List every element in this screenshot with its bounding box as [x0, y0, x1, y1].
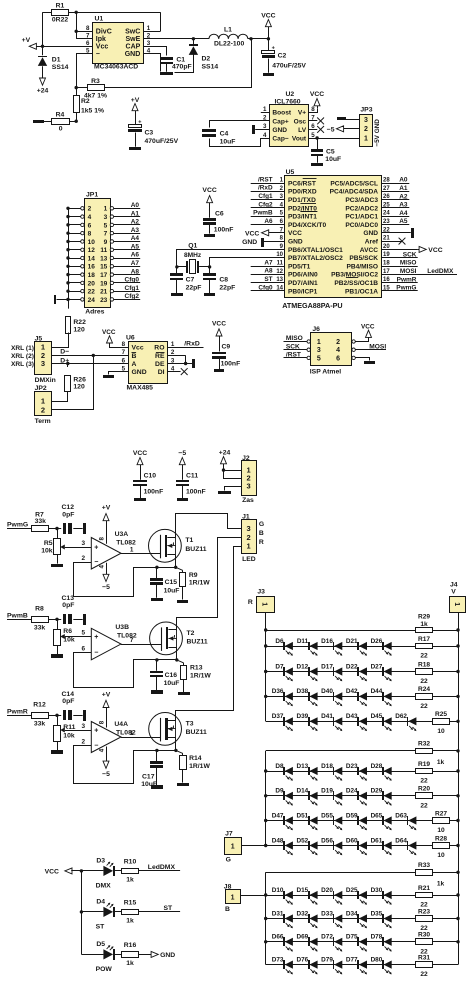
- resistor R31 22: [416, 954, 433, 978]
- J6 pin5 net /RST: [284, 352, 307, 359]
- svg-text:0pF: 0pF: [62, 698, 74, 705]
- svg-text:SCK: SCK: [286, 343, 300, 350]
- svg-text:R32: R32: [418, 741, 430, 748]
- svg-text:D12: D12: [296, 663, 308, 670]
- svg-text:A: A: [132, 361, 137, 368]
- svg-text:17: 17: [100, 272, 108, 279]
- JP1 pin 12 stub to bus: [68, 248, 84, 251]
- LED D11: [297, 638, 318, 656]
- svg-text:D34: D34: [346, 910, 358, 917]
- svg-text:A7: A7: [264, 259, 273, 266]
- JP1 pin 4 stub to bus: [68, 215, 84, 218]
- svg-text:1k: 1k: [437, 759, 445, 766]
- svg-text:−: −: [94, 743, 98, 750]
- U5 pin22 ground: [381, 228, 414, 238]
- LED D17: [321, 663, 342, 681]
- svg-text:J7: J7: [225, 831, 233, 838]
- U5 pin 3 net Cfg1: [251, 193, 285, 200]
- svg-text:11: 11: [277, 261, 284, 267]
- connector J4 V: [450, 582, 466, 613]
- LED D62: [395, 713, 416, 731]
- U5 pin 2 net /RxD: [251, 185, 285, 192]
- svg-text:Osc: Osc: [294, 118, 307, 125]
- svg-text:R19: R19: [418, 761, 430, 768]
- svg-text:0pF: 0pF: [62, 602, 74, 609]
- svg-text:J5: J5: [35, 336, 43, 343]
- JP1 pin 5 net A2: [110, 219, 140, 227]
- svg-text:D24: D24: [346, 788, 358, 795]
- svg-text:8: 8: [88, 231, 92, 238]
- svg-text:+: +: [94, 634, 98, 641]
- svg-text:D63: D63: [395, 812, 407, 819]
- svg-text:MOSI: MOSI: [400, 268, 417, 275]
- svg-text:GND: GND: [132, 369, 147, 376]
- U5 pin 12 net A8: [251, 268, 285, 275]
- svg-text:VCC: VCC: [245, 230, 259, 237]
- wire +V rail to U1 pin6: [35, 46, 92, 48]
- svg-text:4: 4: [88, 214, 92, 221]
- svg-text:ST: ST: [264, 276, 272, 283]
- LED D48: [272, 837, 293, 855]
- LED D32: [296, 910, 317, 928]
- svg-text:22: 22: [420, 678, 428, 685]
- svg-text:Q1: Q1: [188, 242, 197, 249]
- wire LED row at y=771: [266, 771, 458, 773]
- svg-text:12: 12: [88, 247, 96, 254]
- svg-text:Vcc: Vcc: [96, 44, 109, 51]
- svg-text:R28: R28: [435, 835, 447, 842]
- U5 pin 15 net PwmG: [381, 285, 418, 292]
- svg-text:R: R: [259, 539, 264, 546]
- svg-text:6: 6: [88, 222, 92, 229]
- svg-text:D15: D15: [296, 887, 308, 894]
- svg-text:Boost: Boost: [272, 110, 291, 117]
- J6 pin3 net SCK: [284, 343, 307, 350]
- svg-text:1k: 1k: [437, 880, 445, 887]
- svg-text:D4: D4: [96, 899, 105, 906]
- svg-text:ST: ST: [96, 923, 106, 930]
- connector JP1 Adres: [85, 191, 111, 315]
- svg-text:R10: R10: [124, 859, 137, 866]
- svg-text:D42: D42: [346, 688, 358, 695]
- wire R1 to pins 8/7 and pin1: [69, 11, 161, 39]
- svg-text:470uF/25V: 470uF/25V: [272, 63, 306, 70]
- IC U6 MAX485: [122, 335, 175, 392]
- connector J6 ISP Atmel: [307, 326, 355, 376]
- ground at C2: [263, 73, 274, 76]
- LED D6: [275, 638, 293, 656]
- svg-text:D33: D33: [321, 910, 333, 917]
- svg-text:J3: J3: [257, 589, 265, 596]
- svg-text:C14: C14: [62, 691, 75, 698]
- svg-text:ISP Atmel: ISP Atmel: [310, 369, 341, 376]
- svg-text:PB5/SCK: PB5/SCK: [349, 255, 378, 262]
- JP1 pin 17 net A8: [110, 268, 140, 276]
- resistor R17 22: [416, 636, 433, 660]
- wire U1 pin4 GND down: [144, 54, 161, 72]
- svg-text:SS14: SS14: [202, 63, 219, 70]
- wire T3 drain to J1 pin1: [176, 547, 242, 721]
- svg-text:D38: D38: [296, 688, 308, 695]
- inductor L1 DL22-100: [209, 27, 248, 48]
- net LedDMX: [139, 864, 180, 871]
- capacitor C2 470uF/25V: [262, 39, 307, 73]
- resistor R2 1k5: [74, 88, 105, 115]
- svg-text:1k: 1k: [126, 918, 134, 925]
- svg-text:R30: R30: [418, 932, 430, 939]
- svg-text:GND: GND: [242, 239, 257, 246]
- U5 pin 13 net ST: [251, 276, 285, 283]
- U5 pin 26 net A2: [381, 193, 409, 200]
- svg-text:C10: C10: [144, 472, 157, 479]
- svg-text:D43: D43: [346, 713, 358, 720]
- svg-text:A5: A5: [399, 218, 408, 225]
- wire XTAL2 to crystal: [210, 258, 285, 267]
- connector J2 Zas: [242, 455, 257, 504]
- svg-text:D76: D76: [296, 956, 308, 963]
- LED D76: [296, 956, 317, 974]
- label XRL pins: [11, 345, 34, 368]
- svg-text:R25: R25: [435, 711, 447, 718]
- op-amp -input pin 2 feedback: [74, 555, 176, 597]
- svg-text:A1: A1: [131, 210, 140, 217]
- svg-text:R8: R8: [35, 606, 44, 613]
- svg-text:8: 8: [98, 536, 105, 540]
- no-connect U6 pin4 DI: [168, 368, 188, 375]
- capacitor C7 22pF: [170, 267, 201, 293]
- svg-text:100nF: 100nF: [144, 489, 164, 496]
- svg-text:PwmR: PwmR: [7, 709, 28, 716]
- svg-text:U6: U6: [126, 335, 135, 342]
- JP1 pin 2 stub to bus: [68, 207, 84, 210]
- svg-text:7: 7: [130, 637, 134, 644]
- LED D75: [346, 934, 367, 952]
- capacitor C10 100nF at VCC: [133, 450, 163, 501]
- resistor R7 33k: [32, 511, 59, 531]
- svg-text:5: 5: [317, 355, 321, 362]
- svg-text:SCK: SCK: [403, 251, 417, 258]
- wire T3 source to node: [174, 738, 183, 754]
- svg-text:D20: D20: [321, 887, 333, 894]
- LED D59: [346, 812, 367, 830]
- ground at U6 pin5: [103, 372, 129, 379]
- U5 pin 18 net MISO: [381, 260, 418, 267]
- wire U1 pin2 SwE to L1: [144, 38, 209, 40]
- JP1 pin 19 net Cfg0: [110, 277, 140, 285]
- LED D64: [395, 837, 416, 855]
- svg-text:D52: D52: [296, 837, 308, 844]
- svg-text:15: 15: [100, 264, 108, 271]
- svg-text:1R/1W: 1R/1W: [190, 672, 211, 679]
- wire LED row at y=795.8: [266, 795, 458, 797]
- LED D61: [371, 837, 392, 855]
- svg-text:A8: A8: [264, 268, 273, 275]
- svg-text:RE: RE: [155, 353, 165, 360]
- svg-text:+24: +24: [37, 88, 49, 95]
- wire red rail top row to R29: [266, 630, 458, 632]
- wire LED row at y=941.8: [266, 941, 458, 943]
- svg-text:B: B: [225, 906, 230, 913]
- U5 pin17 net MOSI / LedDMX: [381, 268, 457, 275]
- svg-text:D3: D3: [96, 858, 105, 865]
- JP1 pin 21 net Cfg1: [110, 285, 140, 293]
- svg-text:Cfg0: Cfg0: [125, 277, 140, 284]
- LED D56: [321, 837, 342, 855]
- svg-text:D−: D−: [60, 348, 69, 355]
- svg-text:10k: 10k: [63, 637, 75, 644]
- JP1 pin 18 stub to bus: [68, 273, 84, 276]
- svg-text:J6: J6: [312, 326, 320, 333]
- svg-text:DMXin: DMXin: [35, 377, 56, 384]
- svg-text:D36: D36: [272, 688, 284, 695]
- svg-text:MC34063ACD: MC34063ACD: [94, 64, 138, 71]
- JP1 pin 22 stub to bus: [68, 289, 84, 292]
- resistor R12 33k: [32, 702, 59, 728]
- svg-text:A0: A0: [131, 202, 140, 209]
- svg-text:1: 1: [364, 135, 368, 142]
- svg-text:D32: D32: [296, 910, 308, 917]
- svg-text:R21: R21: [418, 885, 430, 892]
- capacitor C16 10uF: [150, 658, 179, 694]
- svg-text:R2: R2: [81, 98, 90, 105]
- resistor R15 1k: [115, 900, 139, 925]
- svg-text:PC1/ADC1: PC1/ADC1: [345, 214, 378, 221]
- svg-text:PC6/RST: PC6/RST: [288, 180, 316, 187]
- LED D21: [346, 638, 367, 656]
- wire bus to D5: [81, 954, 103, 956]
- svg-text:D77: D77: [346, 956, 358, 963]
- svg-text:D7: D7: [275, 663, 284, 670]
- crystal Q1 8MHz: [175, 242, 211, 273]
- svg-text:4: 4: [98, 748, 105, 752]
- svg-text:D48: D48: [272, 837, 284, 844]
- wire R26 to JP2 pin1: [52, 392, 68, 402]
- JP1 pin 20 stub to bus: [68, 281, 84, 284]
- svg-text:Cap−: Cap−: [272, 135, 288, 142]
- LED D19: [321, 788, 342, 806]
- capacitor C4 plates: [202, 129, 235, 146]
- svg-text:+V: +V: [22, 37, 31, 44]
- wire LED row at y=820.5: [266, 820, 458, 822]
- svg-text:1k: 1k: [420, 621, 428, 628]
- svg-text:R29: R29: [418, 614, 430, 621]
- op-amp -5 supply pin 4: [98, 563, 110, 591]
- U5 pin 24 net A4: [381, 210, 409, 217]
- resistor R29 1k: [416, 614, 433, 633]
- J6 pin6 ground: [356, 358, 376, 365]
- wire V rail junction dots: [456, 628, 459, 943]
- svg-text:XRL (2): XRL (2): [11, 353, 34, 360]
- svg-text:B: B: [259, 530, 264, 537]
- svg-text:33k: 33k: [35, 518, 47, 525]
- J6 pin4 net MOSI: [356, 343, 387, 350]
- svg-text:1: 1: [317, 339, 321, 346]
- svg-text:J1: J1: [242, 513, 250, 520]
- no-connect U2 pin6: [309, 126, 324, 133]
- svg-text:SwC: SwC: [125, 29, 140, 36]
- svg-text:1k: 1k: [126, 877, 134, 884]
- LED D27: [371, 663, 392, 681]
- svg-text:Vcc: Vcc: [132, 345, 144, 352]
- svg-text:10: 10: [437, 852, 445, 859]
- capacitor C4 10uF loop: [210, 121, 270, 147]
- resistor R9 1R/1W: [180, 570, 211, 599]
- svg-text:22: 22: [420, 971, 428, 978]
- svg-text:1k: 1k: [126, 960, 134, 967]
- svg-text:1: 1: [247, 542, 251, 551]
- net -5 to JP3 pin2: [327, 126, 359, 134]
- wire U2 pin1 stub: [261, 112, 270, 114]
- connector J8 B: [224, 883, 241, 913]
- ground at R9: [177, 600, 188, 603]
- wire D- net: [52, 348, 129, 357]
- svg-text:T2: T2: [187, 630, 195, 637]
- svg-text:6: 6: [122, 357, 126, 364]
- svg-text:MAX485: MAX485: [127, 385, 154, 392]
- LED D22: [346, 663, 367, 681]
- svg-text:D27: D27: [371, 663, 383, 670]
- svg-text:4: 4: [336, 347, 340, 354]
- wire D+ net: [52, 357, 129, 365]
- LED D4 ST: [96, 899, 115, 931]
- svg-text:G: G: [259, 521, 264, 528]
- svg-text:0: 0: [59, 125, 63, 132]
- node R3/R2 junction: [75, 86, 78, 89]
- svg-text:A8: A8: [131, 268, 140, 275]
- svg-text:5: 5: [311, 132, 315, 139]
- net PwmB: [7, 613, 32, 620]
- node D2 junction: [192, 37, 195, 40]
- svg-text:C7: C7: [186, 277, 195, 284]
- LED D7: [275, 663, 293, 681]
- U5 pin 16 net PwmR: [381, 276, 418, 283]
- svg-text:+V: +V: [102, 505, 111, 512]
- svg-text:28: 28: [383, 178, 390, 184]
- svg-text:4: 4: [263, 132, 267, 139]
- svg-text:/RxD: /RxD: [184, 340, 200, 347]
- svg-text:C3: C3: [145, 130, 154, 137]
- wire JP1 ground bus: [66, 207, 69, 300]
- svg-text:120: 120: [73, 326, 85, 333]
- svg-text:100nF: 100nF: [186, 489, 206, 496]
- svg-text:0R22: 0R22: [52, 17, 68, 24]
- resistor R21 22: [416, 885, 433, 909]
- svg-text:PwmB: PwmB: [253, 210, 273, 217]
- svg-text:3: 3: [317, 347, 321, 354]
- svg-text:R20: R20: [418, 786, 430, 793]
- svg-text:L1: L1: [224, 27, 232, 34]
- svg-text:PD7/AIN1: PD7/AIN1: [288, 280, 318, 287]
- svg-text:D16: D16: [321, 638, 333, 645]
- JP1 pin 16 stub to bus: [68, 265, 84, 268]
- svg-text:D18: D18: [321, 763, 333, 770]
- svg-text:R4: R4: [56, 112, 65, 119]
- svg-text:MISO: MISO: [400, 260, 417, 267]
- ground at J2 pin3: [218, 487, 242, 495]
- op-amp -input pin 2 feedback: [74, 739, 176, 784]
- svg-text:Adres: Adres: [85, 309, 104, 316]
- svg-text:−: −: [94, 649, 98, 656]
- U5 pin 14 net Cfg0: [251, 284, 285, 291]
- svg-text:1R/1W: 1R/1W: [189, 763, 210, 770]
- svg-text:−5V GND: −5V GND: [374, 119, 381, 147]
- svg-text:100nF: 100nF: [221, 360, 241, 367]
- svg-text:PB1/OC1A: PB1/OC1A: [345, 288, 378, 295]
- wire XTAL1 to crystal: [177, 250, 285, 267]
- ground at JP1 bus: [54, 295, 56, 304]
- capacitor C15 10uF: [150, 566, 179, 601]
- wire wiper to op-amp +input pin 3: [65, 540, 92, 548]
- svg-text:3: 3: [364, 117, 368, 124]
- svg-text:22: 22: [88, 289, 96, 296]
- svg-text:D41: D41: [321, 713, 333, 720]
- ground at U2 pin3: [252, 125, 269, 134]
- ground at C8: [204, 293, 215, 296]
- resistor R28 10: [433, 835, 450, 859]
- LED D77: [346, 956, 367, 974]
- svg-text:VCC: VCC: [45, 868, 59, 875]
- net VCC feed for indicator LEDs: [45, 868, 82, 875]
- svg-text:23: 23: [100, 297, 108, 304]
- svg-text:D30: D30: [371, 887, 383, 894]
- node +V/D1/R1 junction: [41, 45, 44, 48]
- svg-text:R13: R13: [190, 665, 203, 672]
- svg-text:LedDMX: LedDMX: [427, 268, 454, 275]
- U5 pin20 AVCC to VCC: [381, 246, 443, 253]
- svg-text:1: 1: [130, 730, 134, 737]
- svg-text:R: R: [248, 599, 253, 606]
- wire J8 to blue rail: [240, 895, 266, 897]
- capacitor C11 100nF at -5: [176, 450, 206, 501]
- svg-text:DL22-100: DL22-100: [214, 41, 244, 48]
- wire LED row at y=964.6: [266, 964, 458, 966]
- svg-text:Ipk: Ipk: [96, 36, 106, 43]
- svg-text:A6: A6: [264, 218, 273, 225]
- svg-text:21: 21: [100, 289, 108, 296]
- svg-text:PwmG: PwmG: [7, 522, 28, 529]
- capacitor C5 10uF: [311, 138, 341, 163]
- no-connect U2 pin7: [309, 118, 324, 125]
- svg-text:10: 10: [88, 239, 96, 246]
- svg-text:−: −: [94, 559, 98, 566]
- svg-text:3: 3: [81, 540, 85, 547]
- svg-text:A0: A0: [399, 177, 408, 184]
- svg-text:D47: D47: [272, 812, 284, 819]
- LED D12: [296, 663, 317, 681]
- svg-text:PwmB: PwmB: [7, 613, 28, 620]
- capacitor C13 0pF: [57, 595, 83, 624]
- svg-text:PD1/TXD: PD1/TXD: [288, 197, 316, 204]
- svg-text:C2: C2: [278, 53, 287, 60]
- LED D39: [296, 713, 317, 731]
- svg-text:LED: LED: [242, 556, 256, 563]
- svg-text:24: 24: [383, 211, 390, 217]
- svg-text:1R/1W: 1R/1W: [189, 580, 210, 587]
- connector JP2 Term: [35, 385, 52, 425]
- svg-text:XRL (1): XRL (1): [11, 345, 34, 352]
- LED D26: [371, 638, 392, 656]
- svg-text:J2: J2: [242, 455, 250, 462]
- svg-text:−: −: [96, 51, 100, 58]
- svg-text:D8: D8: [275, 763, 284, 770]
- svg-text:R27: R27: [435, 810, 447, 817]
- LED D45: [371, 713, 392, 731]
- svg-text:C4: C4: [220, 131, 229, 138]
- svg-text:1: 1: [231, 894, 235, 901]
- wire T1 drain to J1 pin3: [176, 514, 242, 538]
- svg-text:PD3/INT1: PD3/INT1: [288, 214, 317, 221]
- wire LED row at y=845.5: [266, 845, 458, 847]
